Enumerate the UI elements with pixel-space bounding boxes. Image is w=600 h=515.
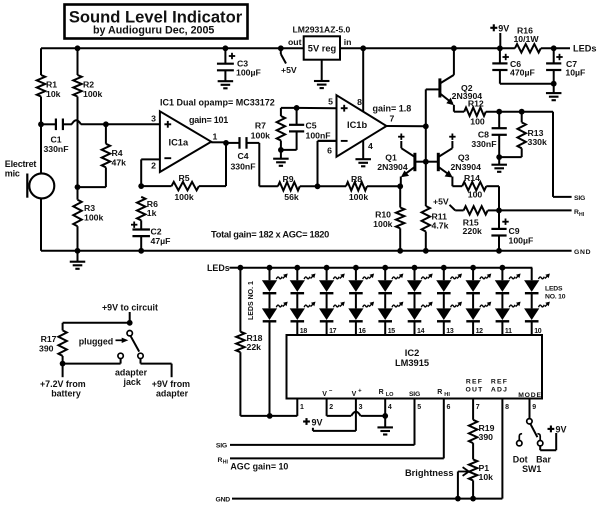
svg-text:+9V to circuit: +9V to circuit [102, 302, 158, 312]
wire +5V rail [41, 47, 304, 49]
svg-text:GND: GND [574, 249, 591, 256]
svg-text:R1: R1 [46, 80, 57, 90]
wire C1 to hop [63, 123, 72, 125]
wire R18 bottom [239, 352, 241, 416]
svg-text:C4: C4 [237, 151, 248, 161]
SW1 bar contact [538, 441, 543, 446]
wire R2 top [77, 48, 79, 75]
svg-text:C1: C1 [50, 135, 61, 145]
svg-text:GND: GND [215, 497, 230, 504]
svg-text:2N3904: 2N3904 [450, 162, 481, 172]
svg-text:18: 18 [300, 328, 308, 335]
ground pin 4 [355, 158, 371, 160]
capacitor C5 [296, 108, 298, 125]
svg-text:100k: 100k [83, 89, 102, 99]
capacitor C9 [498, 210, 500, 229]
svg-text:V: V [322, 391, 327, 398]
LED D13 column 7 [441, 265, 447, 271]
jack contact right [138, 353, 143, 358]
svg-text:390: 390 [39, 344, 54, 354]
svg-text:R9: R9 [282, 174, 293, 184]
svg-text:330k: 330k [528, 137, 547, 147]
LED D15 column 8 [470, 265, 476, 271]
LED D7 column 4 [353, 265, 359, 271]
op-amp U1a IC1a [160, 111, 211, 172]
resistor R9 [278, 182, 300, 190]
svg-text:5V reg: 5V reg [308, 43, 337, 53]
wire C6-C7 bottom [500, 83, 554, 85]
svg-text:100k: 100k [84, 213, 103, 223]
wire GND rail [41, 250, 572, 252]
resistor R12 [454, 111, 464, 113]
svg-text:4.7k: 4.7k [432, 221, 449, 231]
wire adapter [140, 359, 142, 364]
svg-text:+9V from: +9V from [152, 379, 190, 389]
node col1/R18/pin1 [267, 413, 273, 419]
wire IC1b output [387, 125, 426, 127]
LED D6 column 3 [326, 294, 328, 309]
svg-text:SIG: SIG [409, 391, 420, 398]
svg-text:HI: HI [444, 392, 450, 398]
LED D4 column 2 [296, 294, 298, 309]
LED D17 column 9 [500, 265, 506, 271]
svg-text:LEDS: LEDS [545, 286, 563, 293]
wire C9 to gnd [498, 236, 500, 251]
wire LED col8 to pin 12 [472, 322, 474, 335]
svg-text:HI: HI [579, 212, 585, 218]
wire RHI line [230, 457, 444, 459]
wire node to op-amp pin 3 [106, 123, 160, 125]
svg-text:330nF: 330nF [471, 139, 496, 149]
node C8/R13 bottom [496, 154, 502, 160]
capacitor C3 [224, 48, 226, 63]
pin 3 stub [355, 399, 357, 431]
svg-text:5: 5 [417, 404, 421, 411]
pin 8 stub [501, 399, 503, 499]
svg-text:LM2931AZ-5.0: LM2931AZ-5.0 [293, 25, 351, 35]
svg-text:LM3915: LM3915 [395, 358, 429, 368]
node switch common [127, 320, 133, 326]
transistor Q3 [437, 153, 440, 171]
svg-text:1k: 1k [147, 208, 157, 218]
title box [65, 5, 248, 39]
pin 6 stub [443, 399, 445, 459]
svg-text:R4: R4 [112, 148, 123, 158]
SW1 lever [530, 424, 537, 438]
node C1/mic [38, 121, 44, 127]
svg-text:9V: 9V [312, 417, 323, 427]
pin 4 stub [384, 399, 386, 416]
label +9V top [490, 27, 497, 29]
wire node to R3 [77, 187, 79, 200]
svg-text:−: − [329, 388, 333, 394]
svg-text:mic: mic [5, 169, 20, 179]
svg-text:7: 7 [476, 404, 480, 411]
svg-text:OUT: OUT [466, 386, 484, 393]
svg-text:R3: R3 [84, 203, 95, 213]
wire pin2 to pin4 gnd [327, 415, 352, 417]
node R5/R6/pin2 [138, 183, 144, 189]
transistor Q1 [413, 153, 416, 171]
switch lever SW jack [127, 331, 132, 336]
wire bar to +9V [539, 446, 541, 450]
wire op-amp output [211, 141, 226, 143]
svg-text:15: 15 [388, 328, 396, 335]
pin 5 stub [414, 399, 416, 445]
LED D8 column 4 [355, 294, 357, 309]
wire to R17 [63, 322, 130, 324]
svg-text:MODE: MODE [518, 392, 542, 399]
transistor Q2 [438, 78, 441, 97]
node R7/C5 bottom [278, 147, 284, 153]
svg-text:10k: 10k [479, 472, 494, 482]
svg-text:REF: REF [491, 379, 508, 386]
svg-text:in: in [344, 37, 352, 47]
svg-text:+: + [358, 388, 362, 394]
resistor R11 [422, 206, 430, 232]
svg-text:8: 8 [357, 97, 362, 107]
wire pin 4 [362, 141, 364, 159]
wire SIG down [552, 112, 554, 197]
svg-text:REF: REF [466, 379, 483, 386]
wire mic to gnd rail [40, 198, 42, 251]
label +9V pin3 [303, 420, 310, 422]
svg-text:gain= 1.8: gain= 1.8 [373, 104, 412, 114]
svg-text:220k: 220k [463, 226, 482, 236]
wire C2 to gnd rail [140, 236, 142, 251]
wire R13 bottom [521, 148, 523, 157]
node R2/R3/R4 [75, 184, 81, 190]
LED D5 column 3 [324, 265, 330, 271]
resistor R8 [318, 185, 347, 187]
svg-text:IC1 Dual opamp= MC33172: IC1 Dual opamp= MC33172 [160, 98, 275, 108]
svg-text:330nF: 330nF [230, 162, 255, 172]
wire node to pin 6 [317, 141, 319, 186]
svg-text:100: 100 [470, 117, 485, 127]
wire R8 to Q1 emitter node [367, 185, 400, 187]
svg-text:11: 11 [505, 328, 512, 335]
wire P1 bottom [472, 480, 474, 498]
resistor R13 [521, 112, 523, 123]
switch SW1 common [527, 419, 532, 424]
svg-text:C5: C5 [306, 121, 317, 131]
svg-text:6: 6 [327, 146, 332, 156]
svg-text:battery: battery [51, 389, 81, 399]
node output bus [423, 123, 429, 129]
wire node to jack contact [63, 363, 121, 365]
wire node to pin 5 [297, 107, 337, 109]
resistor R4 [105, 124, 107, 144]
svg-text:V: V [352, 391, 357, 398]
svg-text:R12: R12 [468, 98, 484, 108]
svg-text:C9: C9 [509, 226, 520, 236]
node wiper gnd [455, 496, 461, 502]
wire LED col4 to pin 16 [355, 322, 357, 335]
svg-text:LEDs: LEDs [573, 44, 597, 54]
svg-text:17: 17 [329, 328, 337, 335]
LED D10 column 5 [384, 294, 386, 309]
wire node to mic [40, 124, 42, 174]
node C7 gnd [551, 81, 557, 87]
capacitor C8 [498, 112, 500, 129]
node R3 gnd [75, 248, 81, 254]
svg-text:adapter: adapter [115, 367, 148, 377]
node +5V tap [278, 45, 284, 51]
P1 wiper [457, 472, 459, 499]
wire LED col3 to pin 17 [326, 322, 328, 335]
wire R17 bottom [62, 356, 64, 364]
svg-text:3: 3 [359, 404, 363, 411]
LED D14 column 7 [443, 294, 445, 309]
svg-text:Q1: Q1 [385, 152, 397, 162]
svg-text:R2: R2 [83, 80, 94, 90]
svg-text:100k: 100k [174, 192, 193, 202]
wire C5 bottom [296, 131, 298, 150]
wire R14 to RHI node [486, 185, 499, 187]
wire R3 to gnd rail [77, 226, 79, 251]
node R8/R10/Q1e [397, 183, 403, 189]
svg-text:47k: 47k [112, 158, 127, 168]
SW1 dot contact [517, 441, 522, 446]
wire LED col10 to pin 10 [531, 322, 533, 335]
svg-text:Q3: Q3 [458, 152, 470, 162]
pin 7 stub [472, 399, 474, 420]
resistor R1 [37, 75, 45, 97]
svg-text:out: out [288, 37, 302, 47]
wire vertical bus [425, 89, 427, 161]
svg-text:AGC gain= 10: AGC gain= 10 [230, 461, 288, 471]
svg-text:jack: jack [123, 377, 141, 387]
svg-text:NO. 10: NO. 10 [545, 294, 566, 301]
resistor R2 [73, 75, 81, 97]
svg-text:6: 6 [447, 404, 451, 411]
svg-text:10: 10 [534, 328, 542, 335]
ground C8 [498, 157, 500, 164]
label +5V tap [280, 48, 282, 54]
LED D18 column 9 [501, 294, 503, 309]
capacitor C2 [140, 220, 142, 229]
ground pins 2+4 [384, 416, 386, 427]
LED D2 column 1 [269, 294, 271, 309]
svg-text:10µF: 10µF [565, 68, 585, 78]
LED D20 column 10 [531, 294, 533, 309]
node P1 gnd [470, 496, 476, 502]
node R11 gnd [423, 248, 429, 254]
svg-text:IC2: IC2 [405, 348, 419, 358]
electret mic [29, 173, 54, 198]
wire R11 to gnd rail [425, 232, 427, 251]
svg-text:+5V: +5V [281, 65, 297, 75]
node C9 gnd [496, 248, 502, 254]
svg-text:8: 8 [505, 404, 509, 411]
svg-text:plugged: plugged [79, 336, 114, 346]
LED D9 column 5 [382, 265, 388, 271]
svg-text:22k: 22k [247, 342, 262, 352]
wire pin 8 supply [362, 48, 364, 111]
node R2 top [75, 45, 81, 51]
svg-text:LO: LO [386, 392, 394, 398]
pin 1 stub [296, 399, 298, 416]
svg-text:R8: R8 [351, 174, 362, 184]
wire node to R7 [281, 107, 297, 109]
svg-text:9: 9 [532, 404, 536, 411]
svg-text:4: 4 [368, 141, 373, 151]
resistor R18 [239, 268, 241, 332]
svg-text:Dot: Dot [513, 454, 528, 464]
node pin8 rail [360, 45, 366, 51]
svg-text:100: 100 [468, 189, 483, 199]
LED D11 column 6 [412, 265, 418, 271]
wire LED col7 to pin 13 [443, 322, 445, 335]
ground symbol main [77, 251, 79, 262]
ground R7/C5 [280, 150, 282, 159]
node C2 gnd [138, 248, 144, 254]
capacitor C6 [499, 48, 501, 63]
node Q1/Q3 bases [423, 159, 429, 165]
op-amp U1b IC1b [337, 95, 387, 157]
svg-text:9V: 9V [498, 23, 509, 33]
svg-text:+7.2V from: +7.2V from [40, 379, 86, 389]
wire R16 to LEDs [541, 47, 570, 49]
node R7/C5 top [294, 105, 300, 111]
node R4/pin3 [103, 121, 109, 127]
svg-text:3: 3 [151, 114, 156, 124]
wire R12 to SIG branch [486, 111, 553, 113]
svg-text:IC1a: IC1a [169, 137, 189, 147]
LED D1 column 1 [267, 265, 273, 271]
resistor R19 [469, 420, 477, 443]
wire pin3 to +9V [313, 430, 356, 432]
svg-text:Total gain= 182 x AGC= 1820: Total gain= 182 x AGC= 1820 [211, 230, 329, 240]
wire SIG line [230, 444, 415, 446]
wire hop over R2 line [72, 120, 81, 124]
ground regulator [321, 60, 323, 81]
wire C8 bottom [498, 135, 500, 157]
svg-text:gain= 101: gain= 101 [189, 115, 228, 125]
svg-text:adapter: adapter [156, 389, 189, 399]
wire C4 to R9 [247, 142, 260, 144]
wire R10 to gnd [399, 228, 401, 251]
svg-text:10/1W: 10/1W [513, 34, 539, 44]
svg-text:47µF: 47µF [151, 236, 171, 246]
resistor R5 [141, 185, 171, 187]
capacitor C4 [238, 137, 240, 149]
svg-text:10k: 10k [46, 89, 61, 99]
resistor R15 [450, 205, 456, 211]
node Q2 collector rail [451, 45, 457, 51]
ground C3 [224, 70, 226, 81]
resistor R16 [515, 44, 541, 52]
svg-text:+5V: +5V [433, 196, 449, 206]
svg-text:R: R [218, 457, 223, 464]
svg-text:SIG: SIG [216, 443, 227, 450]
svg-text:R: R [437, 389, 442, 396]
wire +9V rail [340, 47, 515, 49]
svg-text:9V: 9V [556, 424, 567, 434]
wire R9 to node [300, 185, 318, 187]
svg-text:Brightness: Brightness [405, 468, 454, 478]
node C7 [551, 45, 557, 51]
svg-text:SIG: SIG [574, 195, 585, 202]
svg-text:2: 2 [151, 161, 156, 171]
svg-text:SW1: SW1 [522, 464, 541, 474]
resistor R7 [277, 116, 285, 141]
svg-text:100k: 100k [373, 219, 392, 229]
svg-text:IC1b: IC1b [347, 120, 367, 130]
wire pin6 from left [318, 140, 337, 142]
svg-text:330nF: 330nF [43, 144, 68, 154]
wire R2 to node [77, 97, 79, 188]
svg-text:ADJ: ADJ [491, 386, 508, 393]
wire LED col6 to pin 14 [414, 322, 416, 335]
node R13 top [519, 109, 525, 115]
svg-text:HI: HI [223, 460, 229, 466]
svg-text:100nF: 100nF [306, 131, 331, 141]
pin 9 stub [529, 399, 531, 419]
IC U3 IC2 LM3915 [287, 335, 543, 399]
svg-text:13: 13 [446, 328, 454, 335]
svg-text:C2: C2 [151, 227, 162, 237]
wire R19 to P1 [472, 443, 474, 459]
svg-text:12: 12 [476, 328, 484, 335]
wire RHI line [499, 209, 572, 211]
svg-text:56k: 56k [284, 192, 299, 202]
svg-text:14: 14 [417, 328, 425, 335]
svg-text:100k: 100k [251, 131, 270, 141]
wire LED rail [240, 267, 532, 269]
svg-text:R7: R7 [255, 121, 266, 131]
wire R5 to output node [199, 185, 226, 187]
capacitor C7 [553, 48, 555, 63]
wire bus to R11 [425, 162, 427, 206]
svg-text:1: 1 [213, 132, 218, 142]
svg-text:2N3904: 2N3904 [377, 162, 408, 172]
node C3 tap [223, 45, 229, 51]
svg-text:390: 390 [479, 432, 494, 442]
wire mic node to C1 [41, 123, 56, 125]
node C8 top [496, 109, 502, 115]
node R10 gnd [397, 248, 403, 254]
svg-text:16: 16 [358, 328, 366, 335]
capacitor C1 [55, 119, 57, 131]
LED D3 column 2 [294, 265, 300, 271]
wire LED col5 to pin 15 [384, 322, 386, 335]
svg-text:7: 7 [390, 114, 395, 124]
jack contact left [118, 353, 123, 358]
svg-text:R14: R14 [464, 173, 480, 183]
wire LED col9 to pin 11 [501, 322, 503, 335]
svg-text:by Audioguru Dec, 2005: by Audioguru Dec, 2005 [93, 25, 214, 37]
ground C6/C7 [553, 84, 555, 93]
svg-text:1: 1 [300, 404, 304, 411]
node R9/R8/pin6 [315, 183, 321, 189]
wire pin1 to col1 node [270, 415, 298, 417]
node R18 top [238, 265, 244, 271]
resistor R10 [399, 186, 401, 207]
svg-text:LEDs: LEDs [207, 263, 230, 273]
wire hop to R4 node [81, 123, 106, 125]
node +9V [497, 45, 503, 51]
LED D19 column 10 [531, 268, 533, 281]
label +9V SW1 [548, 428, 555, 430]
LED D16 column 8 [472, 294, 474, 309]
resistor R3 [73, 200, 81, 227]
resistor R17 [58, 330, 66, 356]
svg-text:R17: R17 [41, 334, 57, 344]
svg-text:100µF: 100µF [509, 236, 534, 246]
resistor R6 [137, 197, 145, 221]
svg-text:Bar: Bar [536, 454, 551, 464]
